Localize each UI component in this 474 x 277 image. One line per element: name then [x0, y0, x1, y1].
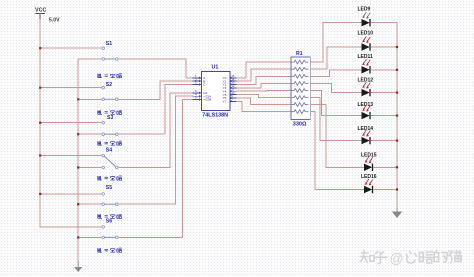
- resistor network R1: [291, 51, 310, 119]
- U1 pin direction arrows: [199, 77, 233, 103]
- svg-text:S2: S2: [106, 82, 112, 88]
- LED LED13: [358, 102, 374, 120]
- switch S2 with label 键 = 空格: [98, 74, 122, 101]
- wire U1 Y1 to R1 pin 2: [237, 69, 292, 81]
- svg-text:S6: S6: [106, 218, 112, 224]
- junction on right rail at LED11: [396, 69, 398, 71]
- wire ground rail tap to S2 bottom throw: [78, 98, 101, 100]
- junction on ground rail at S5: [77, 203, 79, 205]
- svg-text:S3: S3: [107, 115, 113, 121]
- svg-text:S4: S4: [106, 147, 112, 153]
- wire VCC tap to S2 top throw: [40, 87, 101, 89]
- wire LED12 cathode to right rail: [371, 92, 397, 94]
- wire VCC tap to S5 top throw: [40, 193, 101, 195]
- wire R1 pin 4 out to LED12: [310, 83, 361, 92]
- wire S6 pole to U1 pin G2B: [118, 100, 193, 238]
- svg-text:330Ω: 330Ω: [293, 122, 307, 128]
- R1 resistor elements 1-8: [291, 60, 308, 113]
- junction on VCC rail at S5 tap: [39, 193, 41, 195]
- wire U1 Y5 to R1 pin 6: [237, 95, 292, 98]
- wire U1 Y0 to R1 pin 1: [237, 62, 292, 78]
- LED LED9: [358, 7, 371, 27]
- wire LED16 cathode to right rail: [373, 189, 397, 191]
- wire ground rail tap to S3 bottom throw: [78, 133, 101, 135]
- LED LED10: [358, 31, 374, 51]
- LED LED15: [361, 152, 377, 171]
- junction on right rail at LED15: [396, 166, 398, 168]
- svg-text:VCC: VCC: [35, 7, 46, 13]
- wire VCC rail (vertical, ends right to S6 top throw): [40, 19, 101, 227]
- power VCC: [35, 7, 60, 23]
- svg-text:Y7: Y7: [223, 100, 227, 104]
- svg-text:LED9: LED9: [358, 7, 371, 13]
- wire U1 Y6 to R1 pin 7: [237, 98, 292, 105]
- svg-text:LED15: LED15: [361, 152, 377, 158]
- wire R1 pin 3 out to LED11: [310, 70, 361, 77]
- wire LED9 cathode to right rail: [371, 22, 397, 24]
- wire S5 pole to U1 pin G2A: [118, 96, 193, 204]
- wire ground rail tap to S6 bottom throw: [78, 236, 101, 238]
- switch S1: [102, 41, 118, 60]
- wire LED10 cathode to right rail: [371, 46, 397, 48]
- wire LED15 cathode to right rail: [373, 166, 397, 168]
- U1 pin name labels: [203, 76, 226, 104]
- wire ground rail (bottom throws): [77, 59, 79, 262]
- wire R1 pin 7 out to LED15: [310, 105, 364, 168]
- wire right cathode rail to ground: [396, 23, 398, 209]
- watermark 知乎 @心晴的猫: [360, 251, 461, 267]
- svg-text:U1: U1: [212, 65, 219, 71]
- LED LED14: [358, 126, 374, 145]
- switch S5 with label 键 = 空格: [98, 176, 122, 205]
- svg-text:S1: S1: [106, 41, 112, 47]
- svg-text:LED11: LED11: [358, 54, 374, 60]
- wire S2 pole to U1 pin B: [118, 81, 193, 99]
- svg-text:R1: R1: [296, 51, 303, 57]
- wire ground rail tap to S4 bottom throw: [78, 167, 101, 169]
- ground symbol (right, arrow down): [392, 208, 402, 218]
- U1 left pin stubs: [193, 78, 202, 100]
- svg-text:LED10: LED10: [358, 31, 374, 37]
- wire U1 Y2 to R1 pin 3: [237, 76, 292, 84]
- junction on ground rail at S2: [77, 98, 79, 100]
- junction on ground rail at S6: [77, 236, 79, 238]
- wire S1 pole to U1 pin A: [118, 59, 193, 78]
- ground symbol (left, arrow down): [74, 261, 82, 272]
- label 键 = 空格 (below S6): [98, 248, 122, 252]
- wire R1 pin 1 out to LED9: [310, 23, 361, 62]
- wire U1 Y7 to R1 pin 8: [237, 101, 292, 111]
- junction on right rail at LED13: [396, 115, 398, 117]
- svg-text:@: @: [390, 251, 404, 266]
- switch S3 with label 键 = 空格: [98, 110, 122, 135]
- wire VCC tap to S1 top throw: [40, 47, 101, 49]
- junction on right rail at LED14: [396, 140, 398, 142]
- svg-text:5.0V: 5.0V: [49, 18, 60, 24]
- svg-text:~G2B: ~G2B: [203, 98, 211, 102]
- wire U1 Y4 to R1 pin 5: [237, 90, 292, 93]
- junction on ground rail at S4: [77, 166, 79, 168]
- junction on ground rail at S3: [77, 133, 79, 135]
- wire LED14 cathode to right rail: [371, 140, 397, 142]
- U1 pin numbers: [195, 74, 235, 102]
- wire R1 pin 6 out to LED14: [310, 98, 361, 141]
- wire LED13 cathode to right rail: [371, 115, 397, 117]
- svg-text:S5: S5: [106, 185, 112, 191]
- junction on VCC rail at S3 tap: [39, 122, 41, 124]
- junction on right rail at LED12: [396, 92, 398, 94]
- IC U1 74LS138N body: [202, 65, 231, 119]
- LED LED11: [358, 54, 374, 74]
- wire S3 pole to U1 pin C: [118, 84, 193, 134]
- wire VCC tap to S3 top throw: [40, 122, 101, 124]
- junction on VCC rail at S1 tap: [39, 47, 41, 49]
- switch S6 with label 键 = 空格: [98, 214, 122, 238]
- wire R1 pin 2 out to LED10: [310, 47, 361, 69]
- switch S4 (lever to top throw) with label 键 = 空格: [98, 141, 122, 169]
- wire ground rail tap to S5 bottom throw: [78, 203, 101, 205]
- wire LED11 cathode to right rail: [371, 69, 397, 71]
- wire R1 pin 8 out to LED16: [310, 112, 364, 190]
- wire R1 pin 5 out to LED13: [310, 91, 361, 116]
- wire ground rail tap to S1 bottom throw: [78, 58, 101, 60]
- wire U1 Y3 to R1 pin 4: [237, 83, 292, 87]
- junction on VCC rail at S2 tap: [39, 87, 41, 89]
- wire VCC tap to S4 top throw: [40, 155, 101, 157]
- junction on VCC rail at S4 tap: [39, 154, 41, 156]
- wire S4 pole to U1 pin G1: [118, 93, 193, 168]
- junction on right rail at LED16: [396, 188, 398, 190]
- LED LED16: [361, 174, 377, 193]
- svg-text:74LS138N: 74LS138N: [202, 113, 228, 119]
- LED LED12: [358, 78, 374, 97]
- U1 right pin stubs: [230, 78, 236, 102]
- junction on right rail at LED10: [396, 46, 398, 48]
